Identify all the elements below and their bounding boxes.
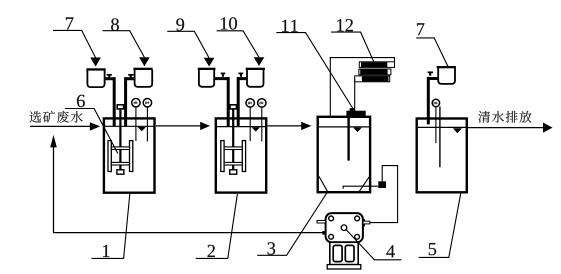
label 4 xyxy=(386,245,395,257)
leader label 7 right xyxy=(416,38,448,67)
leader label 4 xyxy=(346,230,401,260)
outlet text 清水排放 xyxy=(478,111,531,123)
tank 2 water level line xyxy=(216,126,265,128)
label 11 xyxy=(282,20,298,32)
tank 5 water level line xyxy=(417,126,466,128)
electrode plate 2 xyxy=(360,69,387,74)
pump center xyxy=(341,225,347,231)
power supply wire right xyxy=(354,79,356,111)
pump bolts xyxy=(329,216,334,221)
leader label 12 xyxy=(331,32,374,62)
tank 3 hopper-bottom slant left xyxy=(319,176,328,192)
tank 1 (reaction tank) xyxy=(104,118,155,192)
agitator coupling of tank 2 xyxy=(230,105,236,109)
flow arrow tank2 to tank3 xyxy=(268,125,302,127)
agitator shaft of tank 2 xyxy=(232,109,234,170)
feed pipe from hopper 8 xyxy=(126,77,136,126)
suction pipe inside tank 3 xyxy=(343,186,378,189)
label 7 xyxy=(417,23,424,35)
recycle return line xyxy=(54,147,323,233)
power supply wire left xyxy=(330,58,394,117)
pump 4 body xyxy=(326,213,363,242)
leader label 7 xyxy=(53,30,96,57)
leader label 10 xyxy=(217,31,259,58)
label 7 xyxy=(66,17,73,29)
flow arrow tank1 to tank2 xyxy=(156,125,201,127)
outlet line 清水排放 xyxy=(468,127,543,129)
label 12 xyxy=(337,19,353,31)
label 10 xyxy=(221,17,237,29)
pH gauge tank 2 xyxy=(249,107,251,141)
gauge tank 5 xyxy=(435,107,437,143)
agitator shaft of tank 1 xyxy=(119,109,121,170)
feed pipe from right hopper 7 into tank 5 xyxy=(428,77,438,125)
hopper 7 right (dosing tank) xyxy=(437,66,456,68)
leader label 1 xyxy=(92,194,130,258)
tank 1 water level line xyxy=(105,125,155,127)
electrode plate 1 xyxy=(361,62,387,67)
electrode plate stack outline 3 xyxy=(355,76,390,82)
tank 5 (clear water tank) xyxy=(417,119,467,193)
Eh gauge tank 2 xyxy=(261,107,263,141)
pump right inlet stub xyxy=(363,219,365,227)
pH gauge tank 1 xyxy=(135,107,137,141)
dip tube tank 5 xyxy=(439,107,441,168)
hopper 8 (dosing tank) xyxy=(133,68,152,70)
impeller frame of tank 1 xyxy=(108,141,111,172)
hopper 9 (dosing tank) xyxy=(198,68,216,70)
tank 2 (reaction tank) xyxy=(216,118,266,192)
label 8 xyxy=(111,18,119,30)
electrode plate stack outline 1 xyxy=(359,62,394,68)
shaft foot bearing of tank 1 xyxy=(117,170,124,174)
tank 3 water level line xyxy=(318,126,369,128)
agitator coupling of tank 1 xyxy=(117,105,123,109)
hopper 10 (dosing tank) xyxy=(246,68,265,70)
tank 3 hopper-bottom slant right xyxy=(359,176,370,192)
pump base plate xyxy=(327,265,361,269)
label 3 xyxy=(268,242,276,254)
feed pipe from hopper 7 xyxy=(104,77,114,126)
leader label 11 xyxy=(276,33,353,110)
leader label 8 xyxy=(103,31,145,58)
hopper 7 (dosing tank) xyxy=(86,68,105,70)
outlet valve block xyxy=(378,181,386,188)
leader label 3 xyxy=(257,192,327,255)
Eh gauge tank 1 xyxy=(146,107,148,142)
shaft foot bearing of tank 2 xyxy=(230,170,237,174)
label 6 xyxy=(77,95,85,107)
leader label 5 xyxy=(419,194,461,258)
electrode plate 3 xyxy=(362,76,389,81)
feed pipe from hopper 9 xyxy=(214,77,228,126)
inlet line 选矿废水 xyxy=(30,125,90,127)
tank 3 (electro-treatment tank) xyxy=(318,117,370,192)
pipe from valve to pump xyxy=(370,166,398,223)
label 2 xyxy=(208,245,215,257)
inlet text 选矿废水 xyxy=(29,111,82,123)
leader label 2 xyxy=(196,194,238,258)
label 1 xyxy=(103,245,109,257)
label 9 xyxy=(176,18,184,30)
feed pipe from hopper 10 xyxy=(238,77,247,126)
pump bottom-left outlet stub xyxy=(322,231,325,235)
label 5 xyxy=(429,243,436,255)
electrode rod in tank 3 xyxy=(347,116,349,161)
pump top-left stub xyxy=(317,221,326,224)
leader label 9 xyxy=(167,31,209,58)
electrode plate stack outline 2 xyxy=(359,69,391,75)
leader label 6 xyxy=(65,109,118,154)
impeller frame of tank 2 xyxy=(221,141,224,172)
electrode holder block (label 11 target) xyxy=(346,111,365,116)
pump base xyxy=(330,242,358,264)
